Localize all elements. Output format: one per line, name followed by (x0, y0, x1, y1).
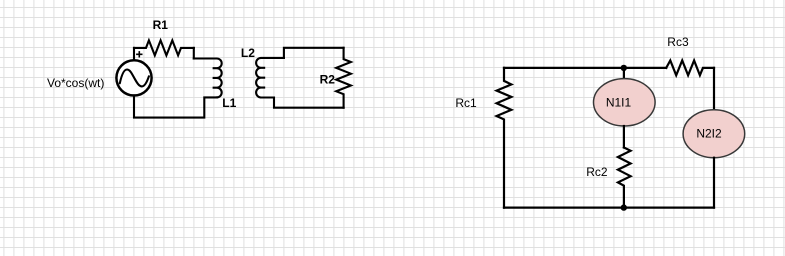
svg-text:L1: L1 (222, 96, 236, 110)
wire N1I1 to Rc2 (623, 126, 625, 148)
AC source V1 (116, 60, 151, 95)
inductor L2 (256, 58, 284, 98)
source N1I1 (594, 79, 656, 126)
resistor R1 (134, 40, 194, 55)
source N2I2 (683, 110, 745, 158)
wire right branch bottom (713, 158, 715, 208)
resistor Rc2 (618, 148, 631, 208)
inductor L1 (194, 59, 222, 98)
resistor Rc1 (497, 68, 512, 208)
wire bottom rail (504, 207, 714, 209)
svg-text:Rc1: Rc1 (455, 96, 477, 110)
svg-text:Rc3: Rc3 (667, 35, 689, 49)
wire right branch top (713, 68, 715, 110)
resistor R2 (336, 48, 351, 108)
svg-text:N2I2: N2I2 (696, 126, 722, 140)
wire source top (133, 48, 135, 61)
wire top rail (504, 67, 666, 69)
wire node to N1I1 (623, 68, 625, 79)
node junction top (621, 65, 627, 71)
wire L1 bottom loop (134, 95, 217, 117)
svg-text:Rc2: Rc2 (586, 165, 608, 179)
wire R1 to L1 (193, 48, 195, 59)
svg-text:R2: R2 (320, 73, 336, 87)
wire R2 bottom to L2 (261, 98, 344, 108)
svg-text:R1: R1 (153, 18, 169, 32)
svg-text:L2: L2 (241, 46, 255, 60)
svg-text:Vo*cos(wt): Vo*cos(wt) (47, 76, 104, 90)
wire L2 top to R2 (284, 48, 344, 58)
svg-text:N1I1: N1I1 (606, 96, 632, 110)
node junction bottom (621, 204, 627, 210)
resistor Rc3 (666, 61, 714, 76)
plus polarity mark (136, 51, 142, 57)
